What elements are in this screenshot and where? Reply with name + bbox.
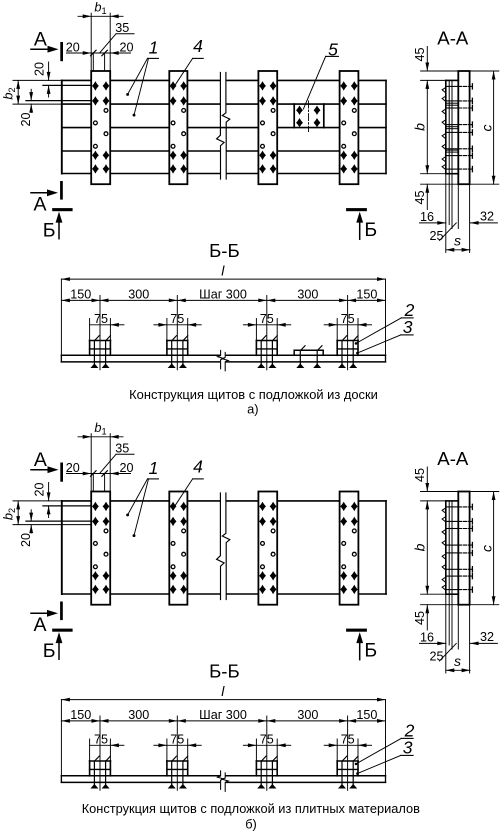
svg-text:75: 75 xyxy=(260,733,274,747)
svg-text:45: 45 xyxy=(413,47,427,61)
dimension 75 over batten 4 xyxy=(336,739,338,761)
batten 3 outline xyxy=(258,492,277,605)
svg-text:Шаг 300: Шаг 300 xyxy=(199,288,247,302)
svg-text:3: 3 xyxy=(403,317,413,337)
batten 4 outline xyxy=(340,71,359,184)
svg-text:4: 4 xyxy=(193,457,203,477)
svg-text:b2: b2 xyxy=(0,508,17,520)
A-A batten cross-section xyxy=(458,71,469,184)
svg-text:а): а) xyxy=(247,402,258,417)
bar break lines xyxy=(218,350,224,368)
svg-text:150: 150 xyxy=(356,708,377,722)
batten centre line xyxy=(99,296,101,370)
B-B end extension lines xyxy=(60,279,62,362)
svg-text:b2: b2 xyxy=(0,87,17,99)
nails (screws) batten 3 xyxy=(260,502,266,510)
svg-text:А: А xyxy=(33,193,46,215)
svg-text:l: l xyxy=(221,683,225,699)
svg-text:Конструкция щитов с подложкой: Конструкция щитов с подложкой из доски xyxy=(129,387,378,402)
svg-text:А: А xyxy=(34,449,47,471)
batten centre line xyxy=(176,716,178,790)
svg-text:b: b xyxy=(412,543,428,551)
batten centre line xyxy=(176,296,178,370)
section flag A bottom xyxy=(60,181,63,200)
dimension b1 extension lines xyxy=(90,13,92,71)
svg-text:75: 75 xyxy=(260,312,274,326)
B-B batten 2 cross-section xyxy=(167,760,188,762)
svg-text:b: b xyxy=(412,123,428,131)
svg-text:c: c xyxy=(478,125,494,132)
svg-text:300: 300 xyxy=(297,288,318,302)
svg-text:75: 75 xyxy=(341,312,355,326)
break lines xyxy=(217,493,225,600)
B-B batten 4 cross-section xyxy=(337,340,358,342)
batten 1 outline xyxy=(91,492,110,605)
section flag A top xyxy=(60,42,63,61)
batten 2 outline xyxy=(169,71,187,184)
svg-text:35: 35 xyxy=(115,21,129,35)
A-A extension lines xyxy=(421,491,459,493)
dimension 75 over batten 2 xyxy=(166,739,168,761)
section flag B left xyxy=(52,629,72,632)
svg-text:c: c xyxy=(478,545,494,552)
svg-text:20: 20 xyxy=(32,482,46,496)
A-A nails with clinched points xyxy=(446,506,459,508)
svg-text:45: 45 xyxy=(413,468,427,482)
svg-text:А-А: А-А xyxy=(437,448,469,469)
svg-text:45: 45 xyxy=(413,611,427,625)
dimension 75 over batten 3 xyxy=(255,319,257,341)
A-A lower extension lines xyxy=(445,174,447,253)
dimension b1 xyxy=(78,15,123,17)
A-A nails with clinched points xyxy=(446,85,459,87)
dimension 75 over batten 3 xyxy=(255,739,257,761)
dimension 75 over batten 4 xyxy=(336,319,338,341)
nails (screws) batten 1 xyxy=(92,502,98,510)
dimension b1 xyxy=(78,436,123,438)
extension line board bottom edge xyxy=(13,103,62,105)
nails (screws) batten 4 xyxy=(341,502,347,510)
nails of batten 1 xyxy=(93,761,95,785)
batten 4 outline xyxy=(340,492,359,605)
B-B batten 1 cross-section xyxy=(90,340,111,342)
dimension 20 / 35 / 20 line xyxy=(67,473,131,475)
svg-text:b1: b1 xyxy=(94,0,106,16)
svg-text:Шаг 300: Шаг 300 xyxy=(199,708,247,722)
svg-text:75: 75 xyxy=(170,312,184,326)
svg-text:Конструкция щитов с подложкой: Конструкция щитов с подложкой из плитных… xyxy=(82,801,420,816)
B-B batten 1 cross-section xyxy=(90,760,111,762)
extension line second nail row xyxy=(26,520,91,522)
B-B batten 3 cross-section xyxy=(256,760,277,762)
nails of batten 1 xyxy=(93,341,95,365)
svg-text:300: 300 xyxy=(128,288,149,302)
batten centre line xyxy=(266,296,268,370)
panel outline xyxy=(61,80,63,173)
board joint lines xyxy=(62,103,91,105)
extension line top board edge xyxy=(13,79,62,81)
svg-text:20: 20 xyxy=(66,461,80,475)
svg-text:1: 1 xyxy=(149,38,159,58)
extension line top board edge xyxy=(13,500,62,502)
batten centre line xyxy=(99,716,101,790)
batten 1 outline xyxy=(91,71,110,184)
chained dimensions 150/300/step300/300/150 xyxy=(61,299,385,301)
svg-text:20: 20 xyxy=(32,62,46,76)
A-A board/plate stack xyxy=(445,80,447,173)
batten centre line xyxy=(347,716,349,790)
svg-text:Б: Б xyxy=(43,640,56,662)
svg-text:А-А: А-А xyxy=(437,28,469,49)
svg-text:А: А xyxy=(34,29,47,51)
svg-text:Б: Б xyxy=(364,219,377,241)
svg-text:300: 300 xyxy=(128,708,149,722)
svg-text:75: 75 xyxy=(170,733,184,747)
batten centre line xyxy=(266,716,268,790)
svg-text:20: 20 xyxy=(119,41,133,55)
svg-text:s: s xyxy=(454,233,461,249)
screw projection lines xyxy=(92,53,94,71)
batten 3 outline xyxy=(258,71,277,184)
batten centre line xyxy=(347,296,349,370)
nails of batten 2 xyxy=(171,341,173,365)
B-B butt joint cover plate xyxy=(294,349,323,351)
nails of batten 2 xyxy=(171,761,173,785)
bar break lines xyxy=(218,771,224,789)
svg-text:Б-Б: Б-Б xyxy=(209,661,240,682)
detail 5 - board butt joint cover xyxy=(293,104,295,128)
extension line board bottom edge xyxy=(13,524,91,526)
break lines xyxy=(217,73,225,180)
nails (screws) batten 2 xyxy=(170,502,176,510)
extension line first nail row xyxy=(43,84,91,86)
A-A batten cross-section xyxy=(458,492,469,605)
panel bottom edge xyxy=(62,173,91,175)
dimension 75 over batten 2 xyxy=(166,319,168,341)
nails (screws) batten 2 xyxy=(170,82,176,90)
svg-text:16: 16 xyxy=(420,631,434,645)
panel outline (plate version) xyxy=(61,501,63,594)
centre line of joint xyxy=(308,101,310,132)
A-A lower extension lines xyxy=(445,594,447,673)
nails of batten 3 xyxy=(260,761,262,785)
section flag A top xyxy=(60,463,63,482)
panel top edge xyxy=(62,500,91,502)
svg-text:20: 20 xyxy=(19,533,33,547)
section flag A bottom xyxy=(60,602,63,621)
svg-text:300: 300 xyxy=(297,708,318,722)
svg-text:25: 25 xyxy=(429,650,443,664)
chained dimensions 150/300/step300/300/150 xyxy=(61,720,385,722)
svg-text:Б-Б: Б-Б xyxy=(209,240,240,261)
svg-text:3: 3 xyxy=(403,738,413,758)
A-A board/plate stack xyxy=(445,501,447,594)
svg-text:b1: b1 xyxy=(94,420,106,437)
svg-text:32: 32 xyxy=(480,630,494,644)
extension line first nail row xyxy=(43,505,91,507)
svg-text:А: А xyxy=(33,614,46,636)
B-B batten 3 cross-section xyxy=(256,340,277,342)
nails of batten 4 xyxy=(341,341,343,365)
svg-text:75: 75 xyxy=(94,312,108,326)
A-A extension lines xyxy=(421,70,459,72)
svg-text:Б: Б xyxy=(364,640,377,662)
panel top edge xyxy=(62,79,91,81)
nails (screws) batten 4 xyxy=(341,82,347,90)
B-B end extension lines xyxy=(60,700,62,783)
dimension b1 extension lines xyxy=(90,434,92,492)
extension line second nail row xyxy=(26,100,91,102)
B-B batten 4 cross-section xyxy=(337,760,358,762)
svg-text:20: 20 xyxy=(119,461,133,475)
svg-text:б): б) xyxy=(245,816,257,831)
dimension 75 over batten 1 xyxy=(89,319,91,341)
B-B batten 2 cross-section xyxy=(167,340,188,342)
A-A board joints xyxy=(446,102,459,104)
dimension 20 / 35 / 20 line xyxy=(67,52,131,54)
svg-text:20: 20 xyxy=(19,112,33,126)
substrate bar xyxy=(61,775,219,777)
svg-text:150: 150 xyxy=(356,288,377,302)
svg-text:s: s xyxy=(454,653,461,669)
svg-text:150: 150 xyxy=(70,288,91,302)
batten 2 outline xyxy=(169,492,187,605)
panel bottom edge xyxy=(62,593,91,595)
svg-text:1: 1 xyxy=(149,458,159,478)
section flag B right xyxy=(346,208,367,211)
svg-text:75: 75 xyxy=(94,733,108,747)
svg-text:l: l xyxy=(221,263,225,279)
nails (screws) batten 1 xyxy=(92,82,98,90)
svg-text:35: 35 xyxy=(115,442,129,456)
nails of joint cover xyxy=(299,350,301,364)
svg-text:16: 16 xyxy=(420,210,434,224)
svg-text:25: 25 xyxy=(429,229,443,243)
substrate bar xyxy=(61,354,219,356)
nails of batten 3 xyxy=(260,341,262,365)
screw projection lines xyxy=(92,474,94,492)
svg-text:Б: Б xyxy=(43,219,56,241)
section flag B left xyxy=(52,208,72,211)
nails of batten 4 xyxy=(341,761,343,785)
svg-text:150: 150 xyxy=(70,708,91,722)
svg-text:20: 20 xyxy=(66,41,80,55)
svg-text:75: 75 xyxy=(341,733,355,747)
nails (screws) batten 3 xyxy=(260,82,266,90)
section flag B right xyxy=(346,629,367,632)
dimension 75 over batten 1 xyxy=(89,739,91,761)
svg-text:4: 4 xyxy=(193,36,203,56)
svg-text:32: 32 xyxy=(480,210,494,224)
svg-text:45: 45 xyxy=(413,190,427,204)
